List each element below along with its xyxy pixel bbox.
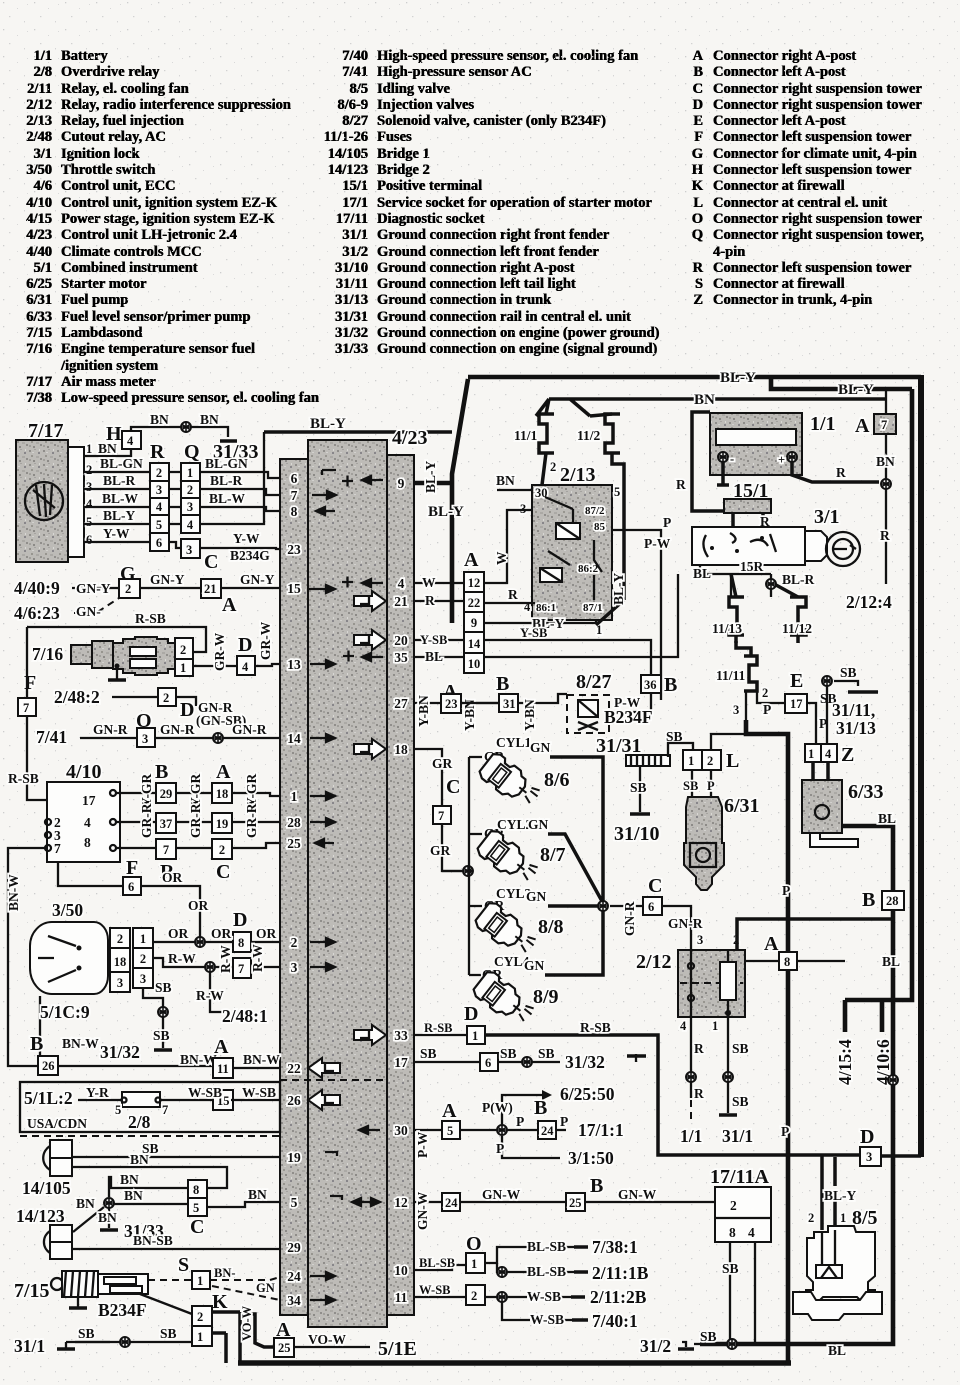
splice SB ground 31/11 (822, 676, 832, 686)
svg-text:7: 7 (162, 1103, 168, 1117)
svg-text:4/40:9: 4/40:9 (14, 578, 60, 598)
svg-text:+: + (778, 453, 785, 467)
wire R-W to 2/48:1 (210, 972, 222, 1012)
svg-text:R-SB: R-SB (8, 771, 39, 786)
svg-text:BN-W: BN-W (62, 1036, 99, 1051)
svg-text:1: 1 (86, 442, 92, 456)
svg-text:SB: SB (78, 1326, 95, 1341)
svg-text:B234F: B234F (604, 707, 653, 727)
svg-text:2: 2 (86, 463, 92, 477)
svg-text:Y-GR: Y-GR (244, 773, 259, 807)
svg-text:28: 28 (886, 894, 899, 908)
svg-text:85: 85 (594, 521, 606, 533)
svg-text:6: 6 (485, 1056, 491, 1070)
svg-text:33: 33 (394, 1028, 408, 1043)
svg-text:D: D (464, 1003, 478, 1025)
svg-text:1: 1 (197, 1274, 203, 1288)
svg-text:C: C (648, 875, 662, 897)
svg-text:2: 2 (187, 483, 193, 497)
svg-text:OR: OR (211, 926, 232, 941)
svg-text:BN: BN (120, 1172, 139, 1187)
wire BL from 6/33 (842, 826, 893, 891)
svg-text:6: 6 (86, 533, 92, 547)
svg-text:2: 2 (197, 1310, 203, 1324)
wire lambda to K (140, 1294, 192, 1314)
svg-text:31/32: 31/32 (100, 1042, 140, 1062)
svg-text:BN-SB: BN-SB (133, 1233, 173, 1248)
svg-text:P: P (763, 702, 771, 717)
svg-text:OR: OR (168, 926, 189, 941)
svg-text:P: P (782, 883, 790, 898)
svg-text:A: A (764, 933, 779, 955)
svg-text:2/11:1B: 2/11:1B (592, 1263, 649, 1283)
legend column 3 (676, 48, 924, 309)
svg-text:5: 5 (291, 1195, 298, 1210)
svg-text:1: 1 (808, 747, 814, 761)
svg-text:5: 5 (156, 518, 162, 532)
svg-text:W-SB: W-SB (242, 1085, 276, 1100)
svg-text:86:2: 86:2 (578, 563, 599, 575)
svg-text:31/1: 31/1 (722, 1126, 753, 1146)
svg-text:R: R (836, 465, 846, 480)
wire BN-W row to A-11 (58, 1066, 280, 1068)
right pin numbers (394, 476, 408, 1305)
svg-text:8/6: 8/6 (544, 769, 570, 791)
svg-text:B: B (862, 889, 875, 911)
svg-text:Y-R: Y-R (86, 1085, 109, 1100)
svg-text:18: 18 (216, 787, 229, 801)
pin17 SB row ground 31/32 (414, 1061, 560, 1063)
wire BL-R row (84, 489, 280, 495)
svg-text:14/123: 14/123 (16, 1206, 65, 1226)
svg-text:L: L (726, 750, 739, 772)
injector 8/8 CYL3 (473, 900, 540, 961)
svg-text:1: 1 (197, 1330, 203, 1344)
svg-text:7: 7 (881, 418, 887, 432)
svg-text:R-W: R-W (250, 944, 265, 972)
svg-text:24: 24 (541, 1124, 554, 1138)
svg-text:BL-W: BL-W (102, 491, 139, 506)
svg-text:20: 20 (394, 633, 408, 648)
svg-text:B: B (590, 1175, 603, 1197)
svg-text:1: 1 (712, 1019, 718, 1033)
svg-text:GN-R: GN-R (622, 901, 637, 936)
svg-text:4: 4 (187, 518, 194, 532)
injector 8/6 CYL1 (477, 751, 544, 812)
svg-text:5/1L:2: 5/1L:2 (24, 1088, 73, 1108)
svg-text:P: P (663, 515, 671, 530)
svg-text:4/10: 4/10 (66, 761, 102, 783)
wire R-SB (27, 627, 206, 652)
svg-text:2: 2 (762, 686, 768, 700)
svg-text:GR-R: GR-R (244, 803, 259, 838)
svg-text:BL: BL (828, 1343, 846, 1358)
svg-text:8/7: 8/7 (540, 844, 566, 866)
wire Y-W row (84, 542, 280, 549)
connector 7/16 pins (175, 638, 193, 676)
svg-text:2: 2 (156, 466, 162, 480)
svg-text:14: 14 (287, 731, 301, 746)
wire BL-W row (84, 507, 280, 511)
wire P net (746, 720, 788, 1364)
svg-text:P-W: P-W (415, 1131, 430, 1158)
svg-text:SB: SB (500, 1046, 517, 1061)
svg-text:25: 25 (278, 1341, 291, 1355)
svg-text:BN: BN (130, 1152, 149, 1167)
svg-text:7/16: 7/16 (32, 644, 63, 664)
svg-text:15: 15 (287, 581, 301, 596)
svg-text:SB: SB (700, 1329, 717, 1344)
fuses 11/13 11/12 (729, 597, 744, 635)
svg-text:10: 10 (394, 1263, 408, 1278)
svg-text:GN-Y: GN-Y (76, 581, 111, 596)
svg-text:W-SB: W-SB (527, 1289, 561, 1304)
svg-text:BL: BL (878, 811, 896, 826)
svg-text:BN: BN (200, 412, 219, 427)
legend column 1 (0, 48, 319, 407)
svg-text:C: C (446, 776, 460, 798)
svg-text:Y-BN: Y-BN (522, 699, 537, 731)
wire R to 2/13 (484, 602, 535, 604)
svg-text:2/8: 2/8 (128, 1112, 151, 1132)
svg-text:4: 4 (156, 500, 163, 514)
wire BL row pin35 (414, 656, 464, 658)
svg-text:OR: OR (256, 926, 277, 941)
svg-text:BL-Y: BL-Y (720, 370, 756, 386)
svg-text:4/15:4: 4/15:4 (835, 1039, 855, 1085)
svg-text:7: 7 (163, 843, 169, 857)
svg-text:USA/CDN: USA/CDN (27, 1116, 87, 1131)
svg-text:GR-W: GR-W (258, 621, 273, 660)
svg-text:R-W: R-W (168, 951, 196, 966)
svg-text:13: 13 (287, 657, 301, 672)
svg-text:12: 12 (468, 576, 481, 590)
svg-text:R: R (425, 593, 435, 608)
svg-text:1: 1 (688, 754, 694, 768)
svg-text:GN-R: GN-R (93, 722, 128, 737)
svg-text:BL-Y: BL-Y (310, 416, 346, 432)
svg-text:22: 22 (287, 1061, 301, 1076)
svg-text:P: P (516, 1114, 524, 1129)
svg-text:4: 4 (398, 576, 405, 591)
svg-text:BN: BN (248, 1187, 267, 1202)
svg-text:GN-W: GN-W (415, 1191, 430, 1230)
wires GN (545, 757, 603, 975)
svg-text:GR-W: GR-W (212, 632, 227, 671)
svg-text:Y-SB: Y-SB (420, 633, 447, 647)
svg-text:1: 1 (471, 1257, 477, 1271)
connector C-8 C-5 (188, 1180, 207, 1216)
svg-text:6/31: 6/31 (724, 795, 760, 817)
fuel pump 6/31 (684, 797, 724, 890)
wire BN pin1 to H (84, 449, 131, 456)
svg-text:4: 4 (748, 1225, 755, 1240)
svg-text:3: 3 (186, 543, 192, 557)
svg-text:11/12: 11/12 (782, 621, 812, 636)
svg-text:W-SB: W-SB (419, 1283, 451, 1297)
svg-text:D: D (860, 1126, 874, 1148)
svg-text:7/40:1: 7/40:1 (592, 1311, 638, 1331)
svg-text:VO-W: VO-W (308, 1332, 346, 1347)
svg-text:26: 26 (42, 1059, 55, 1073)
wire BL-Y label mid (264, 430, 452, 434)
svg-text:18: 18 (394, 742, 408, 757)
svg-text:5: 5 (115, 1103, 121, 1117)
svg-text:GN-R: GN-R (668, 916, 703, 931)
svg-text:8/27: 8/27 (576, 671, 612, 693)
svg-text:BN-W: BN-W (243, 1052, 280, 1067)
svg-text:R-W: R-W (196, 988, 224, 1003)
svg-text:BL-SB: BL-SB (419, 1256, 455, 1270)
svg-text:4: 4 (127, 434, 134, 448)
svg-text:19: 19 (287, 1150, 301, 1165)
wire BN-SB row (72, 1248, 280, 1250)
svg-text:11: 11 (395, 1290, 408, 1305)
svg-text:2/12:4: 2/12:4 (846, 592, 892, 612)
svg-text:R-W: R-W (218, 945, 233, 973)
svg-text:BL: BL (425, 649, 443, 664)
svg-text:1/1: 1/1 (810, 413, 836, 435)
wire Y-SB row to B-36 (484, 640, 651, 675)
svg-text:4/23: 4/23 (392, 427, 428, 449)
svg-text:9: 9 (398, 476, 405, 491)
fuel sender 6/33 (813, 762, 828, 790)
svg-text:3: 3 (866, 1150, 872, 1164)
svg-text:3: 3 (142, 732, 148, 746)
wires O to references (485, 1247, 574, 1297)
splice on BL wire (888, 1075, 898, 1085)
svg-text:7: 7 (238, 962, 244, 976)
svg-text:SB: SB (538, 1046, 555, 1061)
svg-text:25: 25 (287, 836, 301, 851)
svg-text:W: W (422, 575, 436, 590)
svg-text:2: 2 (117, 932, 123, 946)
svg-text:2: 2 (125, 582, 131, 596)
wire P vertical (612, 530, 661, 700)
svg-text:23: 23 (445, 697, 458, 711)
svg-text:Y-BN: Y-BN (416, 695, 431, 727)
svg-text:11/2: 11/2 (577, 428, 601, 443)
svg-text:3/50: 3/50 (52, 900, 83, 920)
svg-text:BL-R: BL-R (782, 572, 815, 587)
svg-text:7/41: 7/41 (36, 727, 67, 747)
wire BL-Y row to bus (84, 432, 264, 524)
wires K to A-25 and bottom (212, 1312, 274, 1347)
svg-text:P: P (560, 1114, 568, 1129)
svg-text:BN-W: BN-W (6, 874, 21, 911)
svg-text:GR-R: GR-R (188, 803, 203, 838)
svg-text:1: 1 (180, 661, 186, 675)
svg-text:37: 37 (160, 817, 173, 831)
svg-text:87/2: 87/2 (585, 505, 605, 517)
svg-text:17: 17 (394, 1055, 408, 1070)
svg-text:24: 24 (445, 1196, 458, 1210)
svg-text:A: A (214, 1036, 229, 1058)
svg-text:B: B (664, 674, 677, 696)
svg-text:R: R (150, 441, 165, 463)
svg-text:BL-GN: BL-GN (205, 456, 248, 471)
svg-text:11: 11 (217, 1062, 229, 1076)
svg-text:2: 2 (730, 1198, 737, 1213)
svg-text:OR: OR (162, 870, 183, 885)
connector Z (805, 744, 837, 762)
svg-text:5: 5 (193, 1201, 199, 1215)
svg-text:BL-Y: BL-Y (611, 572, 626, 605)
svg-text:BN-W: BN-W (180, 1052, 217, 1067)
svg-text:12: 12 (394, 1195, 408, 1210)
svg-text:8: 8 (784, 955, 790, 969)
svg-text:R-SB: R-SB (424, 1021, 452, 1035)
svg-text:BL-SB: BL-SB (527, 1264, 566, 1279)
svg-text:3: 3 (156, 483, 162, 497)
svg-text:R-SB: R-SB (135, 611, 166, 626)
svg-text:35: 35 (394, 650, 408, 665)
svg-text:7/15: 7/15 (14, 1280, 50, 1302)
wire GR bracket to injectors with splice (442, 757, 473, 975)
svg-text:1: 1 (187, 466, 193, 480)
svg-text:SB: SB (683, 779, 698, 793)
svg-text:SB: SB (153, 1028, 170, 1043)
svg-text:7: 7 (291, 488, 298, 503)
hollow arrows (308, 591, 386, 1110)
svg-text:SB: SB (732, 1041, 749, 1056)
svg-text:D: D (238, 634, 252, 656)
svg-text:GN-: GN- (76, 604, 101, 619)
svg-text:GN: GN (526, 889, 547, 904)
svg-text:BL-SB: BL-SB (527, 1239, 566, 1254)
svg-text:17: 17 (790, 697, 803, 711)
svg-text:GN-R: GN-R (232, 722, 267, 737)
svg-text:8: 8 (291, 504, 298, 519)
svg-text:W: W (494, 551, 509, 565)
svg-text:3/1:50: 3/1:50 (568, 1148, 614, 1168)
svg-text:2: 2 (291, 935, 298, 950)
svg-text:3/1: 3/1 (814, 506, 840, 528)
svg-text:31/11,: 31/11, (832, 700, 875, 720)
svg-text:5/1C:9: 5/1C:9 (40, 1002, 90, 1022)
svg-text:P-W: P-W (644, 536, 671, 551)
svg-text:2: 2 (707, 754, 713, 768)
svg-text:SB: SB (420, 1046, 437, 1061)
svg-text:31/31: 31/31 (596, 735, 642, 757)
svg-text:7/17: 7/17 (28, 420, 64, 442)
svg-text:C: C (204, 551, 218, 573)
svg-text:7: 7 (54, 841, 61, 856)
svg-text:GN-R: GN-R (160, 722, 195, 737)
svg-text:F: F (24, 672, 36, 694)
svg-text:H: H (106, 423, 122, 445)
svg-text:29: 29 (160, 787, 173, 801)
svg-text:2: 2 (163, 691, 169, 705)
svg-text:Y-W: Y-W (233, 531, 260, 546)
svg-text:7: 7 (23, 701, 29, 715)
svg-text:2: 2 (140, 952, 146, 966)
svg-text:86:1: 86:1 (536, 602, 556, 614)
svg-text:GN-Y: GN-Y (150, 572, 185, 587)
svg-text:15R: 15R (740, 559, 764, 574)
svg-text:GR-R: GR-R (139, 803, 154, 838)
svg-text:4/6:23: 4/6:23 (14, 603, 60, 623)
svg-text:B: B (30, 1033, 43, 1055)
svg-text:A: A (442, 1100, 457, 1122)
svg-text:2: 2 (471, 1289, 477, 1303)
svg-text:O: O (466, 1233, 482, 1255)
svg-text:11/1: 11/1 (514, 428, 538, 443)
svg-text:BL: BL (882, 954, 900, 969)
svg-text:K: K (212, 1291, 228, 1313)
svg-text:87/1: 87/1 (583, 602, 603, 614)
svg-text:34: 34 (287, 1293, 301, 1308)
wire BN into 2/13 (497, 489, 532, 491)
connector 4/23 left pin strip (280, 459, 308, 1315)
connector 4/23 main band (308, 440, 387, 1327)
svg-text:BL-R: BL-R (103, 473, 136, 488)
svg-text:S: S (178, 1254, 189, 1276)
svg-text:-: - (730, 452, 734, 466)
svg-text:4: 4 (86, 497, 93, 511)
wire W to 2/13 (484, 510, 532, 583)
svg-text:W-SB: W-SB (188, 1085, 222, 1100)
svg-text:18: 18 (114, 955, 127, 969)
svg-text:11/11: 11/11 (716, 668, 746, 683)
svg-text:11/13: 11/13 (712, 621, 742, 636)
dashed section break (280, 1079, 387, 1081)
svg-text:Y-GR: Y-GR (139, 773, 154, 807)
svg-text:GN-W: GN-W (618, 1187, 657, 1202)
connector C box lower Q (181, 539, 200, 558)
connector B-36 (641, 675, 661, 693)
svg-text:W-SB: W-SB (530, 1312, 564, 1327)
svg-text:BL-Y: BL-Y (103, 508, 136, 523)
svg-text:14: 14 (468, 637, 481, 651)
svg-text:10: 10 (468, 657, 481, 671)
svg-text:17/11A: 17/11A (710, 1166, 769, 1188)
svg-text:31/13: 31/13 (836, 718, 876, 738)
svg-text:GN: GN (524, 958, 545, 973)
svg-text:28: 28 (287, 815, 301, 830)
svg-text:GN: GN (528, 817, 549, 832)
svg-text:B: B (534, 1097, 547, 1119)
svg-text:8/8: 8/8 (538, 916, 564, 938)
svg-text:2: 2 (808, 1211, 814, 1225)
wire BN-W from 4/10 pin7 (8, 848, 45, 1066)
svg-text:GR: GR (432, 756, 453, 771)
svg-text:BN: BN (150, 412, 169, 427)
svg-text:GN-W: GN-W (482, 1187, 521, 1202)
svg-text:31/1: 31/1 (14, 1336, 45, 1356)
wire BN with splice to ground 31/33 (131, 427, 228, 437)
svg-text:3: 3 (697, 933, 703, 947)
svg-text:27: 27 (394, 696, 408, 711)
svg-text:BL: BL (693, 566, 711, 581)
wire R-W row (153, 958, 280, 967)
svg-text:BL-Y: BL-Y (824, 1188, 857, 1203)
wire Y-BN row pin27 to A-23 (414, 702, 499, 704)
svg-text:GN-Y: GN-Y (240, 572, 275, 587)
svg-text:9: 9 (471, 616, 477, 630)
svg-text:SB: SB (732, 1094, 749, 1109)
svg-text:GR: GR (430, 843, 451, 858)
svg-text:23: 23 (287, 542, 301, 557)
positive terminal 15/1 (717, 462, 729, 485)
svg-text:BL-Y: BL-Y (428, 504, 464, 520)
svg-text:BL-Y: BL-Y (423, 460, 438, 493)
svg-text:6: 6 (291, 471, 298, 486)
injector 8/7 CYL2 (475, 828, 542, 889)
svg-text:Y-W: Y-W (103, 526, 130, 541)
svg-text:R: R (694, 1086, 704, 1101)
svg-text:17: 17 (82, 793, 96, 808)
